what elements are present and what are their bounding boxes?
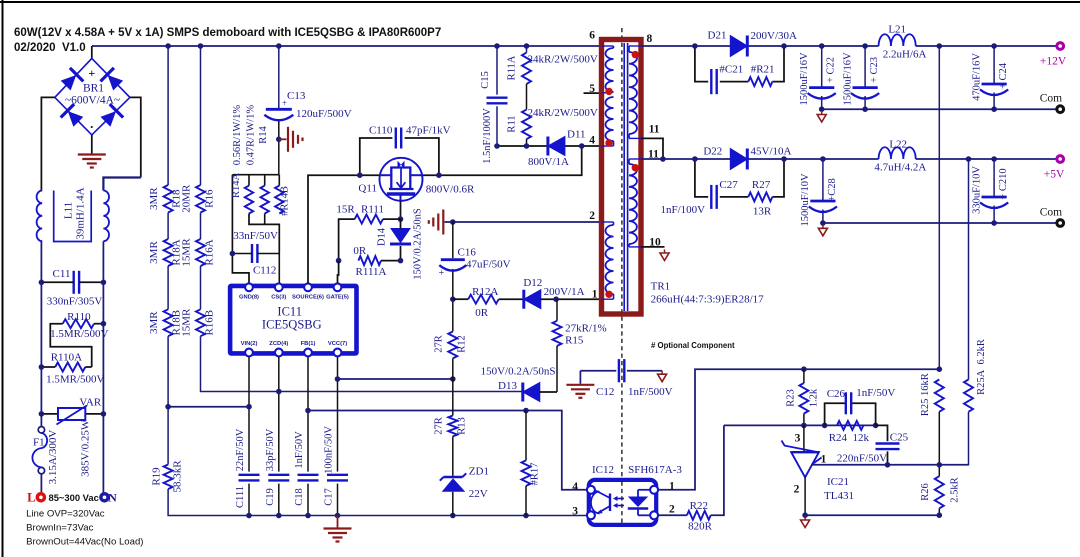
R14 risers [248,175,250,186]
junction dot ZCD line2 [276,389,282,395]
svg-text:IC11: IC11 [277,305,302,319]
BR1 diode top-right [100,68,124,92]
isolation dashed line through IC12 [621,482,623,524]
terminal Com 5V [1055,218,1065,228]
common-mode choke L11 left winding [37,191,43,242]
svg-text:+5V: +5V [1044,169,1065,181]
svg-text:C15: C15 [480,71,491,89]
svg-text:20MR: 20MR [181,184,193,213]
svg-text:CS(3): CS(3) [271,295,286,301]
svg-text:27R: 27R [434,335,445,353]
svg-text:R13: R13 [457,417,468,435]
junction dot R12A line [450,296,456,302]
svg-text:R110: R110 [67,311,91,323]
svg-text:0R: 0R [353,245,367,257]
resistor R18B [164,309,173,336]
wire: snubber bottom line to pin 4 [497,145,547,147]
page border frame [2,0,4,557]
svg-text:C16: C16 [458,247,477,259]
svg-text:N: N [108,491,117,505]
svg-text:R14: R14 [258,126,269,144]
svg-text:1: 1 [592,289,598,301]
svg-text:C27: C27 [719,179,738,191]
IC11 bottom pin circles [245,349,253,357]
optocoupler IC12 box [589,480,656,525]
svg-text:330nF/305V: 330nF/305V [47,296,103,308]
capacitor C13 bulk [266,108,292,111]
junction dot rail R16 top [198,43,204,49]
svg-text:R11: R11 [507,115,518,132]
svg-text:C11: C11 [53,268,71,280]
svg-text:TR1: TR1 [651,281,671,293]
svg-text:SFH617A-3: SFH617A-3 [628,464,682,476]
resistor R21 optional [748,77,772,86]
IC12 light arrows [617,498,624,500]
zener ZD1 [444,476,463,479]
wire: rail R11A R11 [526,46,528,53]
IC12 pin circles [587,486,595,494]
svg-text:3: 3 [572,506,578,518]
svg-text:3: 3 [795,433,801,445]
resistor R16B [196,309,205,336]
svg-text:2.2uH/6A: 2.2uH/6A [883,49,927,61]
IC12 LED [638,489,651,491]
svg-text:+: + [88,66,95,80]
capacitor C28 [822,159,824,201]
wire: bridge top vertex to top bus [91,46,93,58]
resistor R111A [358,256,381,265]
svg-text:R16: R16 [204,189,216,208]
svg-text:#R17: #R17 [530,463,541,486]
ground at C12 [566,384,594,386]
wire: line4 FB to optocoupler [308,411,587,490]
ground sideways at pin2 line [442,210,444,235]
resistor R19 [164,465,173,490]
svg-text:GATE(5): GATE(5) [326,295,349,301]
resistor R17 optional [525,411,527,461]
TR1 secondary winding 8-11 [629,52,637,134]
svg-text:F1: F1 [33,437,45,449]
junction dot R25 rail top [937,43,943,49]
capacitor C11 X-cap [72,271,74,294]
wire: line3 R18B to VIN [168,406,249,408]
svg-text:FB(1): FB(1) [301,341,316,347]
wire: pin 11 upper jog [641,138,663,159]
ground arrow below C28 [822,225,824,229]
svg-text:+: + [439,268,445,279]
varistor VAR [41,413,103,415]
wire: primary gnd bus [249,515,589,517]
svg-text:02/2020 V1.0: 02/2020 V1.0 [14,42,86,54]
ground symbol below gnd bus [337,516,339,528]
svg-text:R26: R26 [920,483,931,501]
svg-text:39mH/1.4A: 39mH/1.4A [75,187,87,239]
svg-text:2: 2 [794,484,800,496]
svg-text:C18: C18 [294,488,305,506]
resistor R18A [164,239,173,266]
svg-text:3MR: 3MR [148,241,160,264]
junction dot R110A left [39,364,45,370]
wire: R25 rail from +12V [938,46,940,369]
svg-text:1500uF/10V: 1500uF/10V [800,173,811,227]
svg-text:R14A: R14A [231,173,242,199]
wire: VCC pin to gnd bus [337,357,339,472]
svg-text:+ C23: + C23 [869,57,880,83]
svg-text:ICE5QSBG: ICE5QSBG [262,318,322,332]
resistor R11A [522,53,531,84]
capacitor C18 [298,474,319,476]
svg-text:L21: L21 [888,24,906,36]
svg-text:470uF/16V: 470uF/16V [971,53,982,101]
resistor R12A [468,295,499,304]
BR1 diode top-left [59,68,83,92]
TR1 core lines [623,43,625,311]
wire: source line to SOURCE pin [308,175,380,283]
svg-text:R15: R15 [565,335,584,347]
TR1 primary winding 6-5 [606,48,614,92]
svg-text:Q11: Q11 [358,183,377,195]
wire: feedback node line R22 to C25 [724,424,876,426]
svg-text:C13: C13 [287,90,306,102]
svg-text:+ C22: + C22 [826,57,837,83]
svg-text:R24 12k: R24 12k [829,432,870,444]
ground arrow right of C12 [661,371,663,375]
capacitor C110 gate-drain [360,138,393,175]
svg-text:33pF/50V: 33pF/50V [265,428,276,471]
resistor R14B [275,186,283,214]
transformer TR1 core box [602,40,642,315]
svg-text:820R: 820R [688,521,713,533]
svg-text:1: 1 [669,481,675,493]
capacitor C26 loop [825,403,846,425]
wire: Q11 gate lead down [400,201,402,219]
svg-text:D12: D12 [523,277,542,289]
svg-text:L11: L11 [63,202,75,219]
svg-text:R27: R27 [752,179,771,191]
wire: opto collector riser to divider line [658,369,939,490]
shunt regulator IC21 TL431 [803,425,805,452]
capacitor C24 [993,46,995,84]
svg-text:4.7uH/4.2A: 4.7uH/4.2A [874,162,926,174]
capacitor C23 [864,46,866,88]
junction dot C13 ground tap [276,137,282,143]
TR1 primary winding 5-4 [606,97,614,141]
svg-text:+ C24: + C24 [998,62,1009,89]
svg-text:SOURCE(6): SOURCE(6) [292,295,324,301]
junction dot rail R18 top [165,43,171,49]
svg-text:R22: R22 [690,500,708,512]
svg-text:5: 5 [589,83,595,95]
svg-text:D11: D11 [567,129,586,141]
wire: anode line to R26 [805,514,939,516]
svg-text:VIN(2): VIN(2) [241,341,258,347]
svg-text:47pF/1kV: 47pF/1kV [406,125,451,137]
terminal +12V [1055,41,1065,51]
resistor R26 [935,476,944,508]
R14 network top bar [232,174,279,176]
wire: BR1 right vertex down to L11 jog [130,97,141,177]
svg-text:R110A: R110A [51,352,82,364]
svg-text:45V/10A: 45V/10A [751,146,792,158]
resistor R25 [935,380,944,412]
TR1 polarity dots [605,88,612,95]
capacitor C210 [993,159,995,197]
resistor R110A [55,363,85,372]
wire: FB pin to gnd bus [307,357,309,472]
svg-text:27R: 27R [434,417,445,435]
svg-text:85~300 Vac: 85~300 Vac [49,492,99,503]
capacitor C27 [710,185,712,209]
wire: rail R16 chain [200,46,202,185]
svg-text:BrownIn=73Vac: BrownIn=73Vac [26,523,93,534]
capacitor C15 [487,96,508,98]
svg-text:2: 2 [669,504,675,516]
resistor R15 [556,299,558,321]
svg-text:200V/1A: 200V/1A [544,286,585,298]
wire: ZCD pin to gnd bus [278,357,280,472]
svg-text:VAR: VAR [79,397,101,409]
svg-text:0R: 0R [475,307,489,319]
junction dot C112 left [230,251,236,257]
resistor R16A [196,239,205,266]
svg-text:L22: L22 [889,139,907,151]
svg-text:# Optional Component: # Optional Component [651,341,735,350]
svg-text:C25: C25 [890,432,909,444]
resistor R13 [448,416,457,437]
svg-text:D13: D13 [498,380,517,392]
svg-text:27kR/1%: 27kR/1% [565,323,607,335]
wire: R19 bottom to gnd bus [168,489,249,516]
transformer pin 5 stub [584,92,602,94]
wire: +12V output line [641,45,879,47]
svg-text:R16A: R16A [204,239,216,265]
wire: R13 to ZD1 [452,436,454,477]
svg-text:C17: C17 [324,488,335,506]
wire: pin 10 stub to arrow [641,246,665,248]
svg-text:R25 16kR: R25 16kR [920,373,931,416]
diode D12 [524,290,541,309]
R14 network left drop wire [232,175,249,284]
resistor R23 [803,369,805,383]
junction dots gnd bus [246,513,252,519]
svg-text:R12A: R12A [472,286,498,298]
svg-text:+12V: +12V [1040,56,1067,68]
svg-text:15MR: 15MR [181,308,193,337]
svg-text:C112: C112 [253,265,276,277]
wire: rail R18 chain [167,46,169,185]
wire: +5V output line [641,158,879,160]
snubber loop C21 R21 [695,46,708,82]
svg-text:R111: R111 [361,204,384,216]
TR1 secondary winding 11-10 [629,164,637,244]
common-mode choke L11 right winding [103,191,109,242]
wire: BR1 bottom vertex to primary ground [91,135,93,154]
diode D14 [391,229,410,243]
svg-text:220nF/50V: 220nF/50V [837,453,887,465]
svg-text:Line OVP=320Vac: Line OVP=320Vac [26,509,105,520]
wire: BR1 left vertex to left rail [41,97,54,190]
op-amp controller IC11 box [230,286,356,354]
svg-text:100nF/50V: 100nF/50V [324,426,335,474]
svg-text:1500uF/16V: 1500uF/16V [799,52,810,106]
svg-text:0.47R/1W/1%: 0.47R/1W/1% [245,105,256,166]
terminal L live input [36,492,47,503]
junction dot R110 right [101,321,107,327]
svg-text:200V/30A: 200V/30A [751,30,798,42]
svg-text:15MR: 15MR [181,238,193,267]
capacitor C22 [821,46,823,88]
wire: VIN pin to gnd bus [248,357,250,472]
isolation dashed line [621,28,623,520]
svg-text:120uF/500V: 120uF/500V [296,108,352,120]
svg-text:D14: D14 [377,227,388,246]
svg-text:1nF/100V: 1nF/100V [661,204,706,216]
svg-text:3MR: 3MR [148,311,160,334]
svg-text:266uH(44:7:3:9)ER28/17: 266uH(44:7:3:9)ER28/17 [651,294,765,306]
svg-text:1nF/500V: 1nF/500V [628,386,673,398]
svg-text:4: 4 [589,135,595,147]
svg-text:22V: 22V [469,488,488,500]
diode D21 [730,36,747,57]
IC11 top pin circles [245,283,253,291]
terminal +5V [1055,154,1065,164]
svg-text:ZD1: ZD1 [469,466,489,478]
wire: rail C16-R12 [452,222,454,258]
wire: C12 left to ground [579,371,581,384]
snubber loop C27 R27 [695,159,708,197]
TR1 primary winding 2-1 [606,225,614,294]
svg-text:Com: Com [1040,207,1062,219]
svg-text:+ C210: + C210 [998,168,1009,199]
svg-text:C26: C26 [827,388,846,400]
svg-text:#R14B: #R14B [280,186,291,216]
BR1 diode bottom-left [61,104,85,128]
terminal N neutral input [99,492,110,503]
capacitor C12 Y-cap [580,370,616,372]
BR1 diode bottom-right [99,104,123,128]
L11 core [54,191,91,242]
svg-text:1.5nF/1000V: 1.5nF/1000V [482,108,493,164]
svg-text:1500uF/16V: 1500uF/16V [843,52,854,106]
svg-text:2: 2 [589,210,595,222]
resistor R111 [355,215,383,224]
svg-text:150V/0.2A/50nS: 150V/0.2A/50nS [413,208,424,280]
wire: rail C13 [278,46,280,109]
svg-text:1.5MR/500V: 1.5MR/500V [50,328,108,340]
svg-text:385V/0.25W: 385V/0.25W [80,419,92,477]
svg-text:IC21: IC21 [827,476,849,488]
wire: VCC line1 to R12 rail [338,378,453,380]
wire: F1 to L terminal [40,474,42,493]
inductor L21 [879,34,916,46]
wire: Com 5V line [823,222,1060,224]
resistor R24 [837,421,864,430]
capacitor C112 [251,244,253,263]
svg-text:1: 1 [821,454,827,466]
wire: R25A rail from +5V [968,159,970,380]
capacitor C17 [327,474,348,476]
wire: right rail L11 to C11 to VAR to N [102,241,104,493]
inductor L22 [879,147,916,159]
junction dots VAR [39,411,45,417]
bridge rectifier BR1 diamond [55,58,130,134]
svg-text:Com: Com [1040,93,1062,105]
svg-text:3MR: 3MR [148,187,160,210]
svg-text:+: + [282,98,287,108]
svg-text:8: 8 [647,33,653,45]
R14 network bottom bar [249,214,279,254]
wire: left rail L11 to C11 to F1 [40,241,42,427]
svg-text:R16B: R16B [204,310,216,336]
svg-text:+C28: +C28 [827,178,838,201]
svg-text:BrownOut=44Vac(No Load): BrownOut=44Vac(No Load) [26,537,143,548]
svg-text:1nF/50V: 1nF/50V [294,431,305,469]
svg-text:150V/0.2A/50nS: 150V/0.2A/50nS [481,366,556,378]
svg-text:C110: C110 [369,125,393,137]
wire: rail C15 [496,46,498,95]
wire: R110 loop [94,323,103,325]
capacitor C19 [268,474,289,476]
wire: CS pin drop [278,254,280,284]
wire: HV+ top bus from bridge to transformer pin 6 [92,45,602,47]
diode D22 [730,149,747,170]
svg-text:6: 6 [589,30,595,42]
resistor R25A [964,380,973,412]
capacitor C21 optional [710,69,712,94]
svg-text:800V/0.6R: 800V/0.6R [426,184,475,196]
svg-text:60W(12V x 4.58A + 5V x 1A) SMP: 60W(12V x 4.58A + 5V x 1A) SMPS demoboar… [14,27,441,39]
resistor R11 [522,110,531,140]
wire: TL431 ref line [812,464,969,466]
svg-text:C111: C111 [235,486,246,508]
svg-text:VCC(7): VCC(7) [328,341,347,347]
terminal Com 12V [1055,104,1065,114]
svg-text:R19: R19 [151,467,163,486]
junction dot R25A rail top [966,156,972,162]
svg-text:BR1: BR1 [83,83,104,95]
svg-text:47uF/50V: 47uF/50V [466,259,511,271]
wire: pin2 line with ground [445,221,602,223]
diode D13 [523,383,540,402]
svg-text:R111A: R111A [356,266,387,278]
resistor R22 [658,514,687,516]
resistor R18 [164,185,173,213]
svg-text:33nF/50V: 33nF/50V [233,230,278,242]
svg-text:D22: D22 [703,146,722,158]
resistor R16 [196,185,205,213]
resistor R110 [63,319,94,328]
svg-text:1nF/50V: 1nF/50V [856,387,895,399]
resistor R14 middle [261,186,269,214]
wire: R110A leads [41,366,55,368]
wire: Com 12V line [822,108,1060,110]
svg-text:L: L [27,490,36,505]
svg-text:1.5MR/500V: 1.5MR/500V [46,374,104,386]
wire: R11A to R11 [526,84,528,110]
svg-text:R23: R23 [786,389,797,407]
svg-text:22nF/50V: 22nF/50V [235,428,246,471]
svg-text:58.3kR: 58.3kR [172,460,184,493]
svg-text:R12: R12 [457,335,468,353]
svg-text:~600V/4A~: ~600V/4A~ [65,95,120,107]
junction dot rail C13 top [276,43,282,49]
ground sideways at C13 [279,138,287,140]
ground below BR1 [78,153,106,155]
svg-text:13R: 13R [753,206,772,218]
resistor R27 [748,192,772,201]
fuse F1 [38,427,44,433]
junction dots C11 [39,280,45,286]
